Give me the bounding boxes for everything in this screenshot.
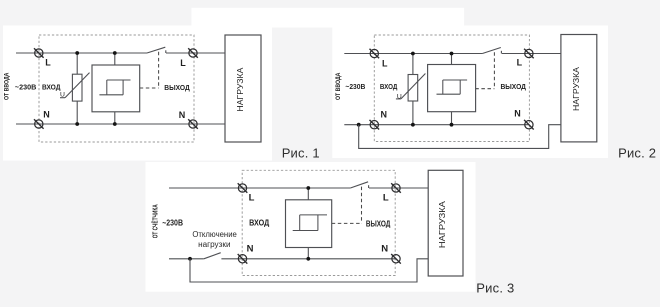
svg-text:нагрузки: нагрузки [198,240,230,249]
svg-text:Рис. 1: Рис. 1 [282,146,320,161]
svg-text:N: N [179,110,186,120]
svg-text:ВЫХОД: ВЫХОД [366,220,391,229]
svg-text:ВХОД: ВХОД [380,84,398,91]
svg-text:L: L [249,192,255,203]
svg-text:U: U [60,92,65,99]
svg-text:N: N [247,244,254,255]
svg-text:Отключение: Отключение [192,230,237,239]
svg-text:L: L [383,192,389,203]
svg-text:НАГРУЗКА: НАГРУЗКА [572,66,581,111]
svg-text:ВЫХОД: ВЫХОД [164,85,190,92]
svg-text:N: N [381,110,388,120]
svg-text:ОТ СЧЁТЧИКА: ОТ СЧЁТЧИКА [152,204,160,238]
svg-text:Рис. 3: Рис. 3 [476,281,514,296]
svg-text:ОТ ВВОДА: ОТ ВВОДА [335,72,342,100]
svg-text:U: U [397,93,402,100]
svg-text:L: L [45,58,51,68]
svg-text:L: L [517,57,523,67]
svg-text:Рис. 2: Рис. 2 [618,146,656,161]
svg-text:L: L [180,58,186,68]
svg-text:ВХОД: ВХОД [42,85,61,92]
svg-text:ВХОД: ВХОД [249,219,269,228]
svg-text:N: N [514,109,521,119]
svg-text:N: N [381,243,388,254]
svg-text:~230В: ~230В [15,85,37,92]
svg-text:ОТ ВВОДА: ОТ ВВОДА [4,72,11,100]
svg-text:ВЫХОД: ВЫХОД [500,84,526,91]
svg-text:НАГРУЗКА: НАГРУЗКА [236,67,245,112]
svg-text:~230В: ~230В [162,219,183,228]
svg-text:НАГРУЗКА: НАГРУЗКА [437,201,447,248]
svg-text:N: N [43,109,50,119]
svg-text:L: L [382,59,388,69]
svg-text:~230В: ~230В [345,84,365,91]
